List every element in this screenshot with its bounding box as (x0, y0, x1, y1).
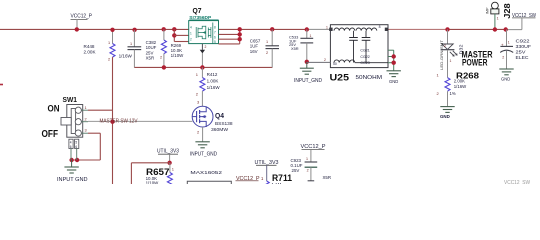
ground INPUT GND under SW1 (57, 160, 88, 183)
svg-text:4: 4 (70, 140, 72, 144)
capacitor C657 (250, 27, 279, 67)
switch SW1 designator (63, 95, 78, 104)
svg-text:1/16W: 1/16W (454, 84, 467, 89)
svg-text:2: 2 (502, 56, 504, 60)
svg-text:Q4: Q4 (215, 113, 224, 120)
svg-text:BSS138: BSS138 (215, 121, 233, 126)
svg-text:MAX16052: MAX16052 (190, 170, 222, 176)
ground INPUT_GND under Q4 (190, 142, 217, 158)
label MASTER POWER (462, 49, 493, 67)
svg-text:50: 50 (333, 62, 337, 66)
svg-text:1: 1 (85, 106, 87, 110)
svg-text:SW1: SW1 (63, 95, 78, 104)
capacitor C382 (128, 28, 157, 68)
svg-text:6: 6 (214, 35, 216, 39)
transistor Q7 designator (193, 6, 202, 15)
svg-text:CG23: CG23 (360, 61, 369, 65)
svg-text:1: 1 (130, 42, 132, 46)
svg-text:1: 1 (190, 32, 192, 36)
resistor R657 (146, 163, 175, 186)
svg-text:1%: 1% (450, 91, 456, 96)
svg-text:1: 1 (310, 34, 312, 38)
svg-text:GND: GND (501, 77, 510, 82)
svg-text:LED-GRN-SMT: LED-GRN-SMT (439, 39, 444, 70)
svg-text:2: 2 (444, 44, 446, 48)
label U25 (330, 73, 350, 84)
node VCC12_P label bottom right (301, 144, 326, 150)
svg-text:R448: R448 (84, 44, 95, 49)
node VCC12_P power label (71, 13, 93, 31)
wire SW1 pin1 to R448 net (88, 109, 113, 111)
svg-text:1.1M: 1.1M (272, 182, 282, 184)
svg-text:7: 7 (214, 30, 216, 34)
ground GND under R268 (440, 107, 455, 119)
svg-text:50NOHM: 50NOHM (356, 75, 383, 81)
svg-text:1UF: 1UF (250, 44, 259, 49)
svg-text:VCC12_SW: VCC12_SW (504, 180, 531, 184)
wire stub at left edge (0, 84, 3, 86)
svg-text:5: 5 (214, 40, 216, 44)
node VCC12_SW label (512, 13, 536, 29)
svg-text:2: 2 (324, 58, 326, 62)
svg-text:ON: ON (48, 103, 60, 114)
svg-text:U25: U25 (330, 73, 350, 84)
wire Q4 source to ground (202, 127, 204, 142)
wire SW1 pin2 gate net MASTER_SW_12V (88, 120, 192, 124)
svg-text:UTIL_3V3: UTIL_3V3 (157, 149, 179, 155)
capacitor C922 (500, 27, 531, 69)
label LED-GRN-SMT (439, 39, 444, 70)
svg-text:8: 8 (214, 25, 216, 29)
svg-text:25V: 25V (516, 49, 527, 54)
wire Q7 left pin jumper (172, 27, 189, 41)
svg-text:6: 6 (75, 145, 77, 149)
svg-text:J28: J28 (502, 3, 512, 19)
svg-text:GND: GND (389, 79, 398, 84)
label MASTER SW 12V (100, 118, 138, 124)
wire Q7 source down to rail2 (200, 53, 204, 70)
ground GND under U25 right pins (387, 71, 401, 84)
svg-text:IMP: IMP (485, 7, 489, 14)
connector J28 (485, 2, 512, 32)
svg-text:2: 2 (307, 169, 309, 173)
switch SW1 body (61, 105, 88, 138)
svg-text:2: 2 (190, 38, 192, 42)
svg-text:X5R: X5R (146, 56, 155, 61)
svg-text:GND: GND (440, 114, 450, 119)
svg-text:360MW: 360MW (211, 127, 229, 132)
svg-text:2: 2 (205, 45, 207, 49)
svg-text:5: 5 (75, 140, 77, 144)
resistor R448 (84, 28, 133, 62)
svg-text:POWER: POWER (462, 57, 488, 67)
svg-text:1/10W: 1/10W (171, 53, 185, 58)
svg-text:VCC12_SW: VCC12_SW (512, 13, 536, 19)
resistor R711 (264, 173, 292, 185)
svg-text:INPUT GND: INPUT GND (57, 177, 88, 183)
label U25 value 50NOHM (356, 75, 383, 81)
svg-text:R412: R412 (207, 72, 218, 77)
svg-text:25V: 25V (292, 168, 300, 173)
svg-text:X5R: X5R (291, 46, 299, 51)
svg-text:2.00K: 2.00K (454, 78, 465, 83)
capacitor C923 (291, 150, 332, 181)
switch SW1 mount pins 4 5 6 (69, 139, 79, 160)
svg-text:CG21: CG21 (360, 49, 369, 53)
transistor Q7 bottom pin arrow (200, 44, 207, 54)
wire UTIL_3V3 net left drop (131, 163, 169, 184)
svg-text:INPUT_GND: INPUT_GND (190, 151, 217, 157)
label OFF (42, 129, 59, 140)
svg-text:INPUT_GND: INPUT_GND (294, 78, 322, 84)
svg-text:1: 1 (497, 16, 499, 20)
svg-text:1: 1 (306, 157, 308, 161)
svg-text:1: 1 (266, 40, 268, 44)
svg-text:OFF: OFF (42, 129, 59, 140)
ground GND under C922 (499, 69, 513, 82)
label R711 value partial (272, 182, 282, 187)
svg-text:1.00K: 1.00K (207, 79, 219, 84)
label VCC12_SW bottom edge (504, 180, 531, 186)
wire Q7 right pins to rail (219, 27, 242, 44)
svg-text:VCC12_P: VCC12_P (301, 144, 326, 150)
svg-text:Q7: Q7 (193, 6, 202, 15)
transistor Q4 (192, 100, 233, 135)
wire top rail right segment (U25 to VCC12_SW) (388, 28, 522, 30)
svg-text:2.00K: 2.00K (84, 49, 97, 54)
wire SW1 pin3 loop (69, 133, 100, 162)
svg-text:ELEC: ELEC (516, 55, 530, 60)
wire main VCC12 top rail left segment (0, 28, 189, 30)
svg-text:6: 6 (70, 145, 72, 149)
svg-text:2: 2 (85, 117, 87, 121)
wire U25 lower-left pin to C533 node (307, 61, 331, 63)
wire U25 right CG pins (388, 50, 396, 70)
resistor R268 (437, 70, 480, 106)
svg-text:1/10W: 1/10W (146, 181, 160, 184)
label ON (48, 103, 60, 114)
wire R448 down to SW1 / MASTER vertical (112, 57, 114, 184)
svg-text:16V: 16V (250, 49, 258, 54)
svg-text:C922: C922 (516, 38, 531, 43)
svg-text:3: 3 (85, 129, 87, 133)
svg-text:330UF: 330UF (516, 44, 532, 49)
svg-text:2: 2 (160, 55, 162, 59)
transistor Q7 part SI7356DP (189, 15, 218, 21)
svg-text:4: 4 (190, 26, 192, 30)
resistor R269 (160, 27, 184, 70)
svg-text:1/16W: 1/16W (207, 85, 221, 90)
svg-text:X5R: X5R (323, 175, 332, 180)
svg-text:2: 2 (266, 51, 268, 55)
svg-text:1: 1 (508, 41, 510, 45)
node VCC12_P 1 label bottom (236, 176, 265, 182)
svg-text:CG22: CG22 (360, 55, 369, 59)
svg-text:8: 8 (379, 25, 381, 29)
svg-text:VCC12_P: VCC12_P (71, 13, 93, 19)
svg-text:MASTER SW 12V: MASTER SW 12V (100, 118, 138, 124)
svg-text:1: 1 (326, 25, 328, 29)
wire top rail middle segment (Q7 right to U25) (219, 28, 331, 30)
filter U25 body (324, 25, 388, 68)
svg-text:1: 1 (450, 59, 452, 63)
ground INPUT_GND under C533 (294, 62, 322, 84)
svg-text:1/16W: 1/16W (119, 54, 133, 59)
resistor R412 (196, 67, 221, 106)
node UTIL_3V3 label left (157, 149, 179, 165)
component MAX16052 box (187, 170, 231, 184)
LED D32 (441, 27, 464, 77)
svg-text:1: 1 (108, 41, 110, 45)
wire second rail y=67.4 (134, 66, 272, 68)
capacitor C533 (289, 27, 313, 64)
svg-text:2: 2 (108, 58, 110, 62)
transistor Q7 body (189, 21, 219, 45)
node UTIL_3V3 label right (255, 160, 279, 181)
